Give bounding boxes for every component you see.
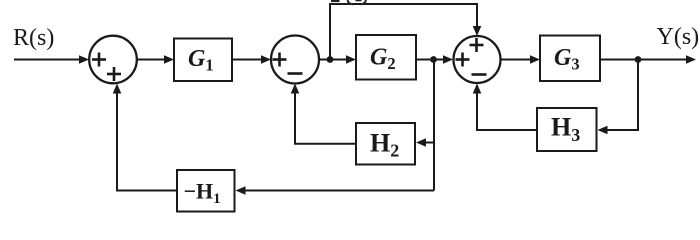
wire G1 to summer S2 bbox=[232, 55, 271, 64]
wire node-after-G2 down to H2 input and -H1 input bbox=[236, 60, 435, 195]
svg-text:R(s): R(s) bbox=[13, 25, 54, 51]
wire H3 output to S3 bottom bbox=[473, 84, 537, 131]
summing junction S1 bbox=[89, 36, 137, 84]
node after G2 bbox=[430, 56, 437, 63]
block -H1 bbox=[177, 170, 235, 212]
summing junction S3 bbox=[454, 36, 501, 83]
wire -H1 output to S1 bottom bbox=[113, 84, 177, 191]
node label (cut off at top) bbox=[331, 0, 366, 4]
block G1 bbox=[174, 39, 232, 82]
wire input R(s) to summer S1 bbox=[14, 55, 89, 64]
summing junction S2 bbox=[271, 36, 319, 84]
block G3 bbox=[540, 36, 600, 82]
wire S2 to G2 with junction bbox=[319, 55, 356, 64]
wire G2 to summer S3 with junction bbox=[416, 55, 453, 64]
wire feedforward top: node after S2 up, across, down into S3 top bbox=[330, 4, 481, 60]
wire S3 to G3 bbox=[501, 55, 540, 64]
block H3 bbox=[537, 108, 597, 151]
block G2 bbox=[356, 35, 416, 80]
block H2 bbox=[356, 123, 415, 165]
wire H2 output to S2 bottom bbox=[291, 84, 356, 144]
wire S1 to G1 bbox=[137, 55, 174, 64]
node on output line bbox=[635, 56, 642, 63]
svg-text:Y(s): Y(s) bbox=[657, 24, 700, 50]
wire output node down to H3 input bbox=[598, 60, 639, 135]
node after S2 bbox=[327, 56, 334, 63]
wire G3 to output Y(s) with junction bbox=[600, 55, 696, 64]
